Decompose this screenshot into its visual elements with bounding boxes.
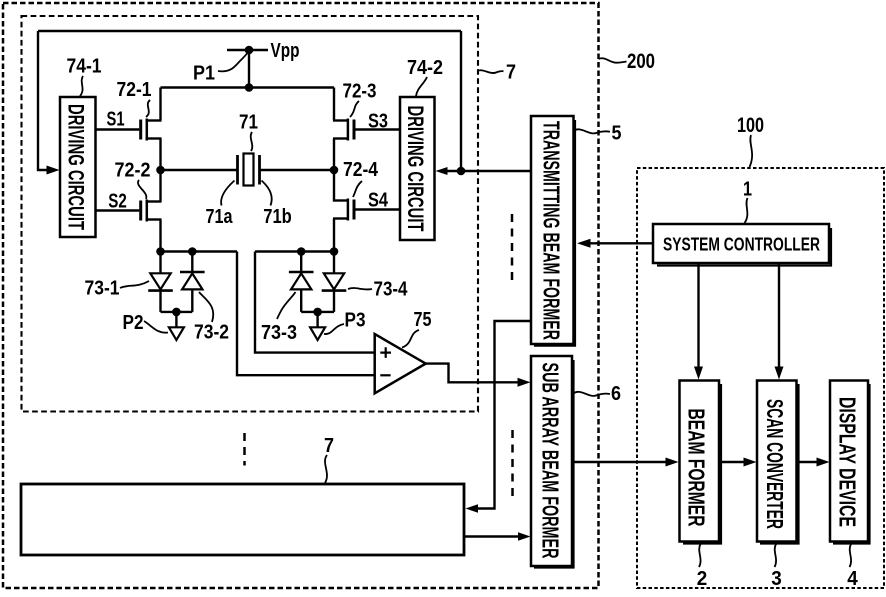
label 73-1 (85, 278, 120, 300)
junction dot right join (313, 308, 322, 317)
svg-text:6: 6 (611, 383, 621, 405)
leader to 72-3 (350, 101, 359, 117)
label 5 (612, 123, 622, 145)
leader P1 (218, 54, 247, 72)
wire S2 gate (96, 209, 139, 211)
op-amp plus sign (380, 347, 391, 358)
arrow into beam former top (694, 367, 703, 380)
junction dot rail (245, 83, 254, 92)
svg-text:DRIVING CIRCUIT: DRIVING CIRCUIT (64, 104, 89, 230)
junction dot right rail b (330, 247, 339, 256)
svg-text:73-4: 73-4 (374, 279, 409, 301)
svg-text:BEAM FORMER: BEAM FORMER (684, 409, 710, 527)
svg-text:2: 2 (697, 568, 708, 590)
arrow into sub array (receive) (518, 532, 531, 541)
wire system controller to transmitting beam former (590, 242, 653, 244)
node S4 (368, 190, 389, 212)
leader 71b (262, 181, 272, 206)
label P2 (123, 312, 144, 334)
label 73-4 (374, 279, 409, 301)
label 71 (239, 112, 258, 134)
dashed box 7 (sub-array unit, upper) (22, 16, 479, 412)
transistor 72-4 (333, 199, 354, 221)
transistor 72-1 (141, 119, 162, 141)
label 100 (737, 114, 764, 137)
wire to minus input (237, 252, 375, 376)
junction dot feedback (457, 167, 466, 176)
svg-text:74-2: 74-2 (407, 57, 443, 79)
transducer array box 7 (21, 484, 464, 555)
svg-text:4: 4 (847, 568, 858, 590)
wire S3 gate (356, 128, 401, 130)
label 4 (847, 568, 858, 590)
wire left chain mid (159, 139, 161, 202)
junction dot node between 72-3 and 72-4 (330, 166, 339, 175)
wire left diode join (161, 311, 193, 313)
driving circuit 74-2 (400, 97, 435, 240)
scan converter 3 (757, 381, 797, 542)
wire beam former to scan converter (719, 461, 745, 463)
wire left diode rail (161, 250, 238, 252)
Vpp bar (227, 49, 268, 52)
label 2 (697, 568, 708, 590)
wire top rail P1 (161, 86, 335, 88)
svg-text:72-3: 72-3 (343, 81, 377, 103)
node S1 (107, 109, 125, 131)
label Vpp (271, 40, 300, 62)
label 75 (414, 309, 432, 331)
wire feedback right vertical (460, 31, 462, 171)
svg-text:S4: S4 (368, 190, 389, 212)
junction dot right rail a (297, 247, 306, 256)
transmitting beam former 5 (531, 116, 574, 344)
wire crystal right (260, 169, 335, 171)
diode 73-3 (289, 252, 314, 312)
label 73-3 (261, 322, 297, 344)
dashed box 200 (probe assembly) (3, 3, 599, 588)
svg-text:71a: 71a (206, 206, 234, 228)
leader to 100 (750, 135, 753, 167)
leader to 72-4 (353, 181, 362, 197)
wire transmitting beam former to driving circuit 74-2 (446, 170, 531, 172)
wire right diode join (301, 311, 334, 313)
svg-text:100: 100 (737, 114, 764, 137)
svg-text:7: 7 (506, 62, 516, 84)
crystal 71 (electrode 71a) (236, 155, 239, 185)
wire op-amp output (426, 364, 519, 383)
wire transmit path vertical (477, 321, 531, 509)
svg-text:P2: P2 (123, 312, 144, 334)
op-amp 75 (375, 334, 426, 393)
arrow into display device left (817, 458, 830, 467)
wire feedback left vertical (38, 31, 47, 170)
leader 1 (745, 198, 748, 223)
svg-text:5: 5 (612, 123, 622, 145)
svg-text:P3: P3 (345, 310, 366, 332)
svg-text:72-4: 72-4 (343, 159, 379, 181)
label 72-1 (117, 79, 152, 101)
wire to plus input (255, 252, 375, 353)
arrow into scan converter left (744, 458, 757, 467)
continuation dashes left (243, 433, 246, 466)
continuation dashes mid lower (511, 430, 514, 496)
arrow into beam former left (666, 458, 679, 467)
leader 5 (574, 129, 611, 133)
label P1 (193, 63, 215, 85)
wire controller to scan converter (778, 263, 780, 368)
label 6 (611, 383, 621, 405)
system controller 1 (653, 224, 829, 263)
node S2 (108, 191, 127, 213)
wire sub array to beam former (572, 461, 667, 463)
label 72-2 (115, 160, 151, 182)
leader to 72-2 (138, 180, 146, 199)
arrow into scan converter top (775, 367, 784, 380)
leader 71a (221, 181, 234, 206)
transistor 72-3 (333, 119, 354, 141)
label 7 (inner dashed box) (506, 62, 516, 84)
label 73-2 (194, 322, 229, 344)
label 72-4 (343, 159, 379, 181)
crystal 71 body (244, 154, 254, 186)
svg-text:200: 200 (627, 50, 655, 73)
diode 73-4 (322, 252, 347, 312)
leader 73-4 (348, 288, 372, 289)
wire right chain top (333, 88, 335, 121)
arrow into transmitting beam former (577, 239, 591, 248)
arrow into sub array beam former (518, 378, 531, 387)
leader to 7 (478, 70, 504, 73)
leader 73-3 (277, 292, 296, 319)
leader to 74-1 (80, 76, 83, 96)
junction dot node between 72-1 and 72-2 (156, 166, 165, 175)
svg-text:71b: 71b (263, 206, 292, 228)
wire feedback top (38, 30, 461, 32)
label P3 (345, 310, 366, 332)
label 1 (743, 179, 752, 201)
wire Vpp stem (248, 50, 250, 88)
wire S1 gate (96, 128, 139, 130)
display device 4 (830, 381, 868, 542)
diode 73-1 (148, 252, 173, 312)
svg-text:3: 3 (771, 568, 782, 590)
leader 2 (699, 544, 701, 567)
label 74-2 (407, 57, 443, 79)
leader to 72-1 (146, 100, 150, 117)
wire right chain mid (333, 139, 335, 202)
svg-text:75: 75 (414, 309, 432, 331)
label 71a (206, 206, 234, 228)
junction dot left join (172, 308, 181, 317)
junction dot left rail a (156, 247, 165, 256)
arrow into driving circuit 74-2 (436, 167, 448, 175)
label 7 (array) (324, 435, 334, 457)
wire crystal left (161, 169, 237, 171)
svg-text:SYSTEM CONTROLLER: SYSTEM CONTROLLER (663, 235, 820, 255)
ground P2 (169, 312, 184, 340)
leader 75 (402, 330, 419, 348)
node S3 (368, 111, 388, 133)
dashed box 100 (main unit) (637, 168, 884, 588)
leader 73-2 (199, 292, 213, 322)
wire left chain top (159, 88, 161, 121)
label 3 (771, 568, 782, 590)
junction dot left rail b (188, 247, 197, 256)
leader 3 (775, 544, 777, 567)
leader to 74-2 (416, 77, 427, 96)
crystal 71 (electrode 71b) (258, 155, 261, 185)
driving circuit 74-1 (60, 97, 96, 237)
svg-text:SUB ARRAY BEAM FORMER: SUB ARRAY BEAM FORMER (538, 363, 564, 559)
sub array beam former 6 (531, 356, 572, 566)
wire receive path to sub array (464, 535, 519, 537)
svg-text:73-1: 73-1 (85, 278, 120, 300)
arrow into wide transducer box (466, 504, 479, 513)
beam former 2 (680, 381, 720, 542)
leader 73-1 (120, 281, 149, 288)
wire right diode rail (255, 250, 334, 252)
label 72-3 (343, 81, 377, 103)
label 200 (627, 50, 655, 73)
arrow into driving circuit 74-1 (47, 166, 60, 175)
svg-text:74-1: 74-1 (67, 56, 102, 78)
svg-text:1: 1 (743, 179, 752, 201)
svg-text:SCAN CONVERTER: SCAN CONVERTER (762, 399, 788, 529)
svg-text:S2: S2 (108, 191, 127, 213)
svg-text:DRIVING CIRCUIT: DRIVING CIRCUIT (403, 106, 428, 232)
leader 71 (251, 132, 253, 151)
transistor 72-2 (141, 200, 162, 222)
svg-text:72-1: 72-1 (117, 79, 152, 101)
leader P3 (324, 324, 344, 334)
wire right chain bottom (333, 219, 335, 252)
svg-text:72-2: 72-2 (115, 160, 151, 182)
leader to 200 (599, 58, 627, 62)
leader P2 (144, 321, 168, 333)
continuation dashes mid upper (511, 214, 514, 285)
label 74-1 (67, 56, 102, 78)
junction dot Vpp bar (245, 46, 254, 55)
svg-text:DISPLAY DEVICE: DISPLAY DEVICE (835, 397, 861, 527)
svg-text:7: 7 (324, 435, 334, 457)
wire scan converter to display device (797, 461, 819, 463)
svg-text:TRANSMITTING BEAM FORMER: TRANSMITTING BEAM FORMER (539, 121, 565, 340)
svg-text:71: 71 (239, 112, 258, 134)
svg-text:P1: P1 (193, 63, 215, 85)
svg-text:Vpp: Vpp (271, 40, 300, 62)
diode 73-2 (180, 252, 205, 312)
wire S4 gate (356, 208, 401, 210)
leader 6 (574, 392, 611, 396)
svg-text:73-3: 73-3 (261, 322, 297, 344)
svg-text:73-2: 73-2 (194, 322, 229, 344)
wire left chain bottom (159, 220, 161, 252)
op-amp minus sign (380, 374, 390, 376)
wire controller to beam former (697, 263, 699, 368)
ground P3 (310, 312, 325, 340)
svg-text:S1: S1 (107, 109, 125, 131)
leader 4 (850, 544, 852, 567)
label 71b (263, 206, 292, 228)
leader 7 array (325, 455, 327, 483)
